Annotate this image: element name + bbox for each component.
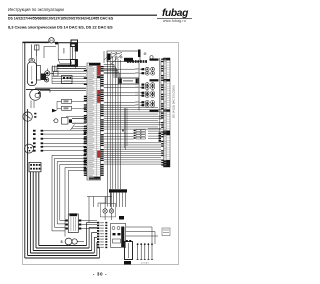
actuator motor M2 (left bottom) (68, 214, 78, 233)
K1 contact symbols (110, 56, 112, 58)
wire X7 to X8 (71, 47, 73, 60)
X2 dark cells (164, 58, 171, 60)
wire: engine mid bus (35, 87, 86, 89)
wire K1 top stub (103, 51, 105, 63)
small circle terminal top (150, 56, 153, 59)
terminal row (135, 72, 140, 73)
Y lead vertical (56, 101, 58, 110)
comb connector ticks (52, 66, 54, 72)
terminal row (135, 84, 140, 85)
wire: left bus 2 (27, 109, 29, 256)
K1 coil cell left (107, 54, 110, 61)
ground lead 4 (147, 245, 149, 260)
svg-text:www.fubag.ru: www.fubag.ru (163, 19, 186, 23)
wire: left bus 4 (32, 172, 34, 251)
wire horn to engine (54, 41, 58, 43)
svg-text:- 30 -: - 30 - (93, 271, 107, 276)
X1 left pins lower (84, 96, 87, 97)
svg-text:DS 14/22/27/44/55/68/88/100/13: DS 14/22/27/44/55/68/88/100/137/165/200/… (8, 17, 114, 21)
bundle wire 1 (52, 154, 84, 156)
wire: engine top bus (57, 68, 86, 70)
X1 row label marks (88, 65, 93, 68)
fuel solenoid Y2 (62, 106, 72, 110)
verticals from rail (88, 197, 90, 223)
X2 divider (166, 58, 168, 167)
key switch box SA1 (111, 223, 126, 247)
terminal bar T1 (150, 59, 159, 61)
wire: engine lower bus (40, 89, 86, 91)
X2 left pins (161, 59, 163, 60)
right edge small box (162, 228, 170, 236)
K1 coil block (124, 58, 133, 62)
Y lead arrow (52, 109, 57, 113)
X1 footer cell (89, 177, 100, 180)
connector box X7 (71, 40, 78, 47)
wire below X1: junction rail (87, 196, 112, 198)
lamp HL2 (109, 209, 113, 213)
wire G1 down (30, 101, 32, 109)
relay box K1 (107, 51, 140, 62)
bundle wire 6 (68, 170, 84, 172)
gray dot (144, 53, 146, 55)
X1 row lines (87, 65, 101, 67)
X1 divider (96, 66, 98, 181)
wires below bar (110, 193, 112, 208)
terminal row (135, 68, 140, 69)
X2 rows (164, 57, 171, 59)
terminal row (135, 87, 140, 88)
wire G1 top (26, 89, 50, 91)
wire: left bus 3 (29, 172, 31, 253)
engine bracket (black C shape) (55, 42, 78, 44)
lower wire band (104, 107, 158, 109)
relay block K4 (29, 162, 41, 171)
diagonal tap wires (104, 52, 112, 60)
header rule (8, 14, 157, 16)
X2 bottom pin column (159, 133, 162, 135)
starter S circles (65, 238, 72, 245)
M2 side pins (65, 220, 68, 222)
sensor small box (54, 72, 59, 77)
terminal strip X2 body (164, 58, 171, 167)
vertical interconnects top-left (51, 67, 53, 84)
engine 3D box (58, 43, 70, 60)
bottom label rows block (97, 222, 99, 224)
wire: left bus 6 (38, 172, 40, 246)
lamp box (100, 203, 115, 217)
schematic border frame (23, 43, 179, 265)
X2 row label marks (164, 58, 166, 61)
terminal bar T2 (150, 79, 159, 81)
fuel level gauge circle (25, 144, 34, 153)
temp gauge circle (23, 112, 32, 121)
bundle wire 4 (60, 163, 84, 165)
ground lead 5 (151, 245, 153, 260)
glow plug component box (62, 76, 73, 84)
wires from left components to strip (52, 66, 86, 68)
svg-text:H: H (50, 39, 52, 43)
dark component right of filter (41, 74, 46, 81)
small sensor box (35, 45, 40, 50)
wires X5 grid to X2 (148, 128, 161, 130)
connector row below K1 (127, 60, 129, 63)
filter side tube (37, 66, 41, 81)
terminal strip X1 body (87, 63, 101, 180)
solid bar component (109, 189, 127, 192)
svg-text:DS 14 (22) DAC ES (230V): DS 14 (22) DAC ES (230V) (171, 85, 175, 118)
generator G1 circle (30, 89, 41, 100)
X1 header cell (89, 63, 100, 66)
wire: top left to horn (23, 41, 49, 43)
wire: left bus 5 (35, 172, 37, 248)
oil pressure sensor circles (45, 71, 50, 76)
mid column bus vertical (138, 63, 140, 111)
vertical wire left of X2 (159, 58, 161, 140)
terminal row (135, 92, 140, 93)
svg-text:fubag: fubag (162, 8, 189, 19)
svg-text:S: S (61, 240, 63, 244)
bundle wire 5 (65, 167, 84, 169)
fuel solenoid Y1 (62, 99, 72, 103)
lamp HL1 (103, 209, 107, 213)
X1 red marker cells (97, 66, 100, 76)
fuel pump assembly (54, 119, 58, 123)
horn H1 (49, 38, 54, 43)
terminal row (135, 95, 140, 96)
ground lead 1 (137, 245, 139, 260)
wire: left bus 1 (24, 43, 26, 258)
ground lead 2 (140, 245, 142, 260)
svg-text:Инструкция по эксплуатации: Инструкция по эксплуатации (8, 7, 65, 12)
wires X1 to terminal rows (104, 68, 142, 70)
connector grid X5 (136, 130, 140, 132)
terminal row (135, 101, 140, 102)
K1 side bar (138, 50, 141, 58)
wires out of M2 right (81, 220, 97, 222)
wires connector to strip (43, 130, 85, 132)
bundle wire 2 (55, 157, 84, 159)
extra wires to strip left (66, 116, 86, 118)
vertical drops from band (123, 108, 125, 148)
filter cap (29, 58, 35, 62)
X1 top pins left (84, 70, 87, 72)
upper wires X1 to mid column (104, 63, 114, 65)
terminal row (135, 104, 140, 105)
relay K2 box (119, 78, 139, 84)
wires SA1 to right (126, 226, 152, 228)
svg-text:8,3 Схема электрическая DS 14: 8,3 Схема электрическая DS 14 DAC ES, DS… (8, 24, 113, 29)
wires X1 lower to X2 lower (104, 142, 162, 144)
logo underline (157, 17, 192, 19)
svg-text:1 2 3 4 5: 1 2 3 4 5 (141, 262, 150, 264)
terminal bar T3 (150, 110, 159, 112)
battery GB (125, 242, 133, 260)
sparse wires below band (104, 133, 134, 135)
wires pump to strip (72, 118, 86, 120)
black cap above SA1 (119, 216, 124, 220)
small junction square (122, 130, 123, 132)
battery ground mark (124, 261, 131, 265)
X1 right pins (101, 66, 104, 67)
hour-meter connector pins (left) (33, 130, 36, 132)
small marks near gauge (34, 113, 36, 115)
bundle wire 3 (57, 160, 84, 162)
switch diagonal (71, 125, 75, 131)
connector box X8 (below X7) (71, 60, 78, 67)
mid vertical bus (107, 54, 109, 207)
fuel filter cylinder (28, 62, 37, 86)
ground lead 3 (144, 245, 146, 260)
